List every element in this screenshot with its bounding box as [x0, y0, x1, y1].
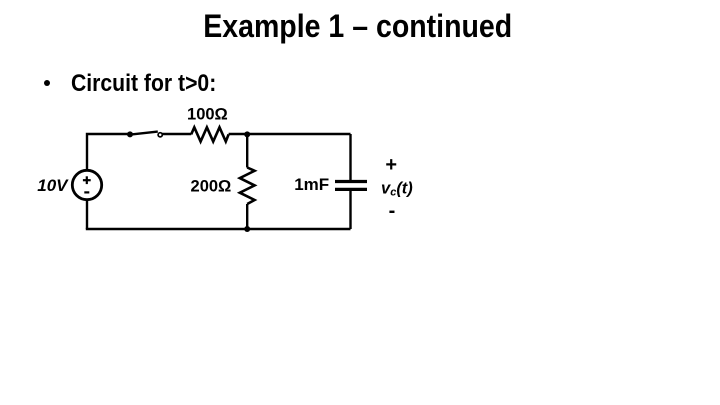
voltage source V1 10V — [72, 170, 101, 199]
bullet text — [71, 70, 216, 98]
capacitor C1 plates — [335, 182, 367, 190]
wire left vertical bottom — [86, 200, 88, 229]
svg-text:100Ω: 100Ω — [187, 105, 228, 123]
svg-text:10V: 10V — [37, 176, 69, 195]
wire switch to resistor R1 — [162, 133, 191, 135]
wire bottom — [86, 228, 351, 230]
wire left vertical + top-left segment — [87, 134, 128, 170]
resistor R1 100ohm zigzag — [191, 127, 228, 141]
svg-text:200Ω: 200Ω — [191, 177, 232, 195]
switch blade — [131, 132, 158, 135]
svg-text:-: - — [389, 200, 396, 222]
svg-text:1mF: 1mF — [294, 175, 329, 194]
node A (junction dot top) — [244, 131, 250, 137]
slide title — [37, 8, 679, 45]
switch open terminal — [158, 133, 162, 137]
svg-text:+: + — [385, 154, 397, 176]
wire right vertical below capacitor — [349, 191, 351, 229]
wire right vertical above capacitor — [349, 134, 351, 180]
switch SW1 (node dot) — [127, 131, 133, 137]
wire R1 to top-right corner — [229, 133, 351, 135]
resistor R2 200ohm zigzag vertical — [240, 168, 255, 205]
node B (junction dot bottom) — [244, 226, 250, 232]
bullet marker — [44, 80, 51, 87]
wire node A to resistor R2 — [246, 134, 248, 168]
wire R2 to bottom node — [246, 204, 248, 229]
svg-text:vc(t): vc(t) — [381, 180, 413, 199]
